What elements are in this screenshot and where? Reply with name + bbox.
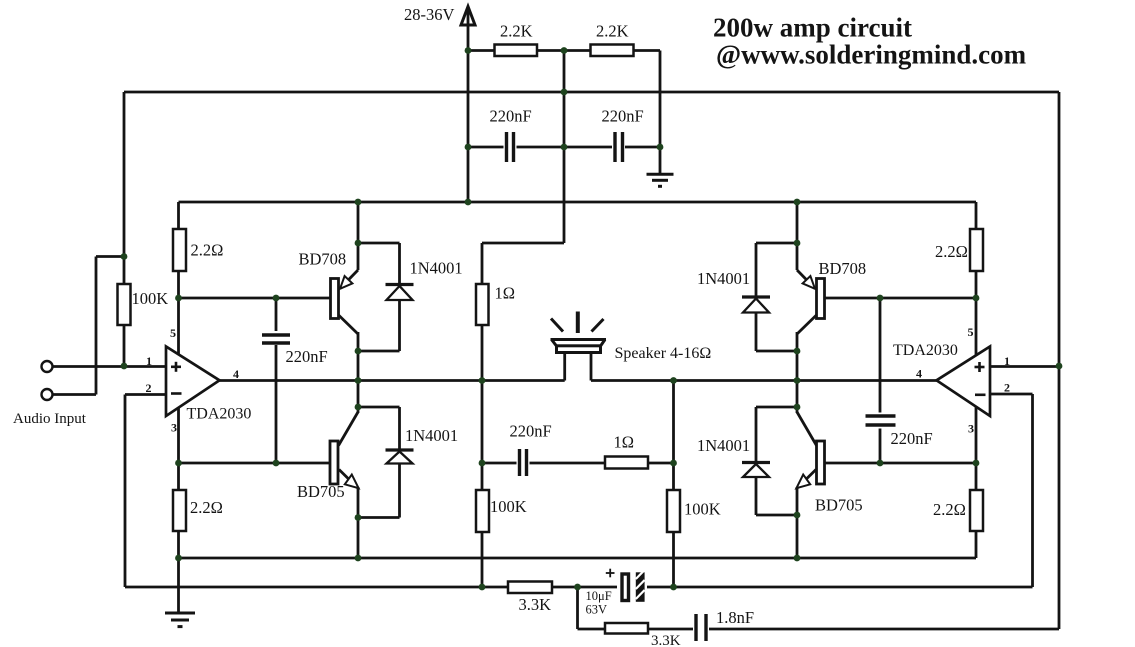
svg-text:100K: 100K (684, 500, 721, 519)
svg-text:10μF: 10μF (586, 589, 612, 603)
svg-text:@www.solderingmind.com: @www.solderingmind.com (716, 40, 1027, 70)
svg-text:1N4001: 1N4001 (405, 426, 458, 445)
svg-text:3.3K: 3.3K (651, 633, 681, 647)
svg-text:1N4001: 1N4001 (697, 436, 750, 455)
svg-text:3: 3 (968, 422, 974, 436)
svg-text:5: 5 (968, 325, 974, 339)
svg-text:5: 5 (170, 326, 176, 340)
svg-text:BD705: BD705 (297, 482, 345, 501)
svg-text:200w amp circuit: 200w amp circuit (713, 13, 912, 43)
svg-text:1.8nF: 1.8nF (716, 608, 754, 627)
svg-text:100K: 100K (490, 497, 527, 516)
svg-text:100K: 100K (132, 289, 169, 308)
svg-text:1: 1 (1004, 354, 1010, 368)
svg-text:BD708: BD708 (299, 250, 347, 269)
svg-text:BD705: BD705 (815, 496, 863, 515)
svg-text:220nF: 220nF (602, 107, 644, 126)
svg-text:63V: 63V (586, 603, 608, 617)
svg-text:2: 2 (1004, 381, 1010, 395)
svg-text:1Ω: 1Ω (614, 433, 635, 452)
svg-text:220nF: 220nF (891, 429, 933, 448)
svg-text:2: 2 (146, 381, 152, 395)
svg-text:28-36V: 28-36V (404, 5, 454, 24)
svg-text:TDA2030: TDA2030 (893, 342, 958, 359)
svg-text:4: 4 (233, 367, 239, 381)
svg-text:3: 3 (171, 421, 177, 435)
svg-text:2.2Ω: 2.2Ω (933, 500, 966, 519)
svg-text:2.2Ω: 2.2Ω (190, 498, 223, 517)
svg-text:1: 1 (146, 354, 152, 368)
svg-text:Speaker 4-16Ω: Speaker 4-16Ω (615, 345, 712, 362)
svg-text:220nF: 220nF (286, 347, 328, 366)
svg-text:2.2Ω: 2.2Ω (191, 241, 224, 260)
svg-text:4: 4 (916, 367, 922, 381)
svg-text:1N4001: 1N4001 (410, 259, 463, 278)
svg-text:3.3K: 3.3K (519, 595, 552, 614)
svg-text:2.2K: 2.2K (500, 22, 533, 41)
svg-text:220nF: 220nF (510, 422, 552, 441)
svg-text:Audio Input: Audio Input (13, 411, 87, 427)
svg-text:TDA2030: TDA2030 (187, 406, 252, 423)
svg-text:1Ω: 1Ω (495, 284, 516, 303)
svg-text:BD708: BD708 (819, 259, 867, 278)
svg-text:2.2K: 2.2K (596, 22, 629, 41)
svg-text:2.2Ω: 2.2Ω (935, 242, 968, 261)
svg-text:1N4001: 1N4001 (697, 269, 750, 288)
svg-text:220nF: 220nF (490, 107, 532, 126)
